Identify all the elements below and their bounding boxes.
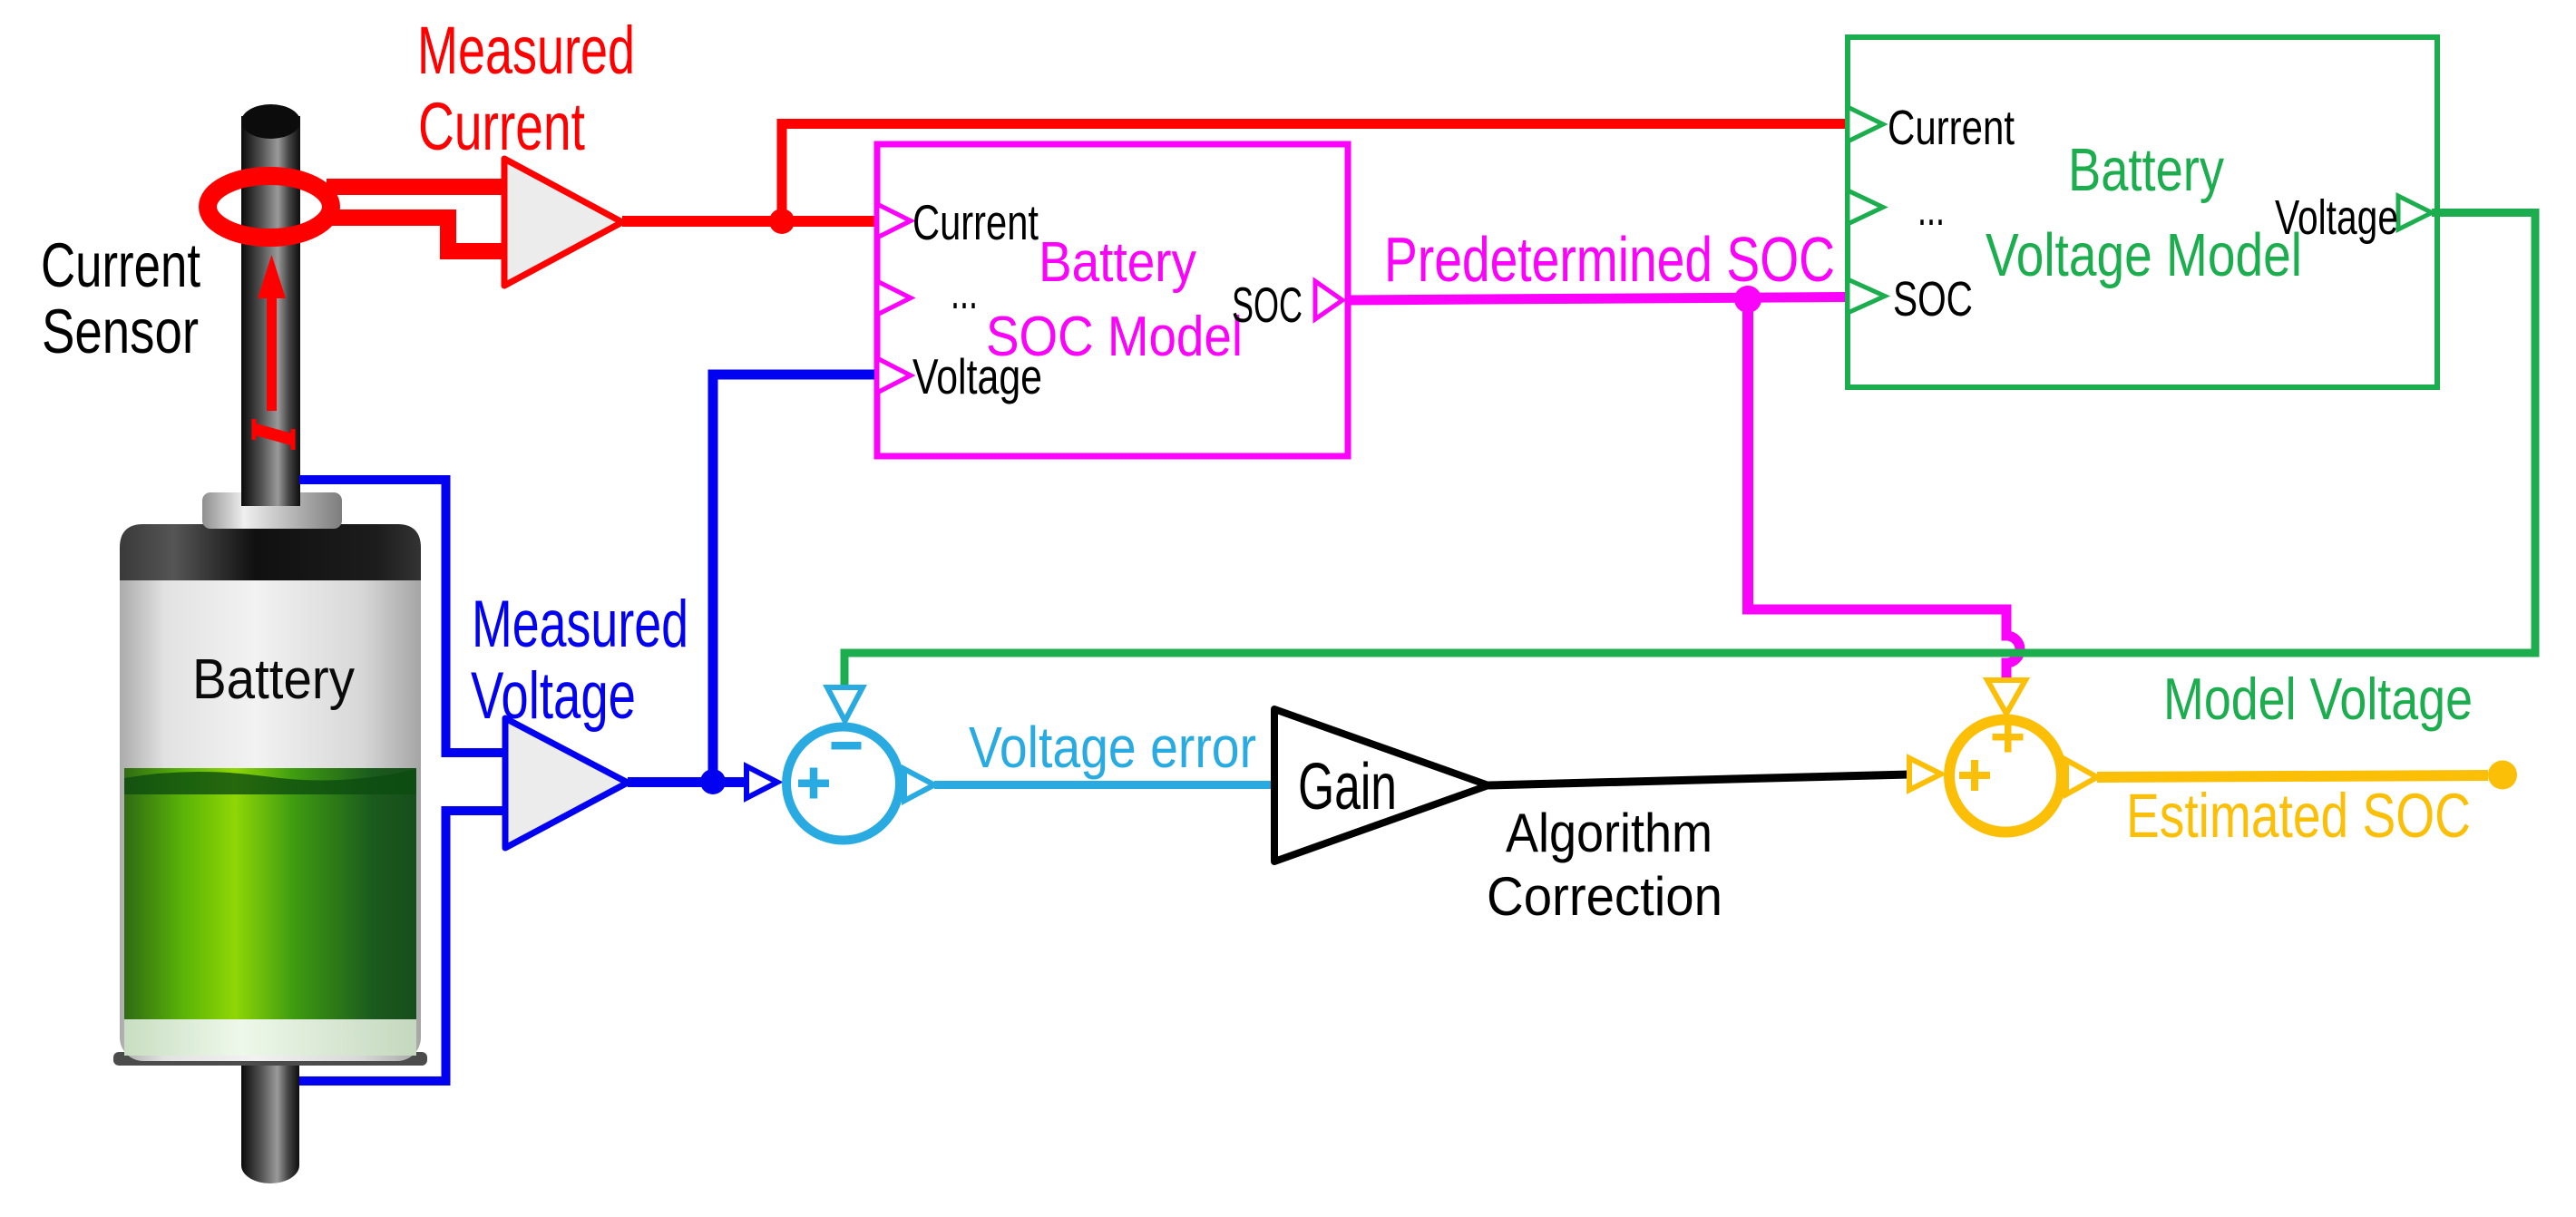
svg-text:Current: Current — [41, 230, 200, 300]
wire node up — [777, 119, 787, 221]
Battery SOC Model block — [877, 144, 1348, 456]
amplifier (current) — [504, 159, 622, 286]
label Measured Current — [417, 13, 635, 164]
svg-text:Battery: Battery — [1039, 231, 1196, 294]
wire ring to amp (top) — [327, 179, 504, 195]
estimator sum left input arrow — [1909, 758, 1941, 790]
SOC model output port SOC — [1315, 281, 1342, 319]
svg-text:Voltage Model: Voltage Model — [1986, 221, 2302, 289]
SOC model title — [986, 231, 1243, 368]
plus sign (left) — [1959, 760, 1990, 791]
estimator sum top input arrow — [1987, 680, 2025, 714]
battery pale bottom band — [124, 1019, 416, 1056]
wire voltage error — [934, 781, 1274, 789]
svg-text:Sensor: Sensor — [42, 297, 199, 366]
svg-text:Current: Current — [912, 194, 1039, 250]
svg-text:...: ... — [951, 263, 978, 319]
wire magenta junction down — [1742, 299, 1753, 609]
voltage model input port Current — [1848, 107, 1883, 141]
svg-text:Estimated SOC: Estimated SOC — [2126, 781, 2471, 851]
SOC model input port Current — [877, 204, 911, 238]
voltage model title — [1986, 136, 2302, 289]
wire gain to estimator sum — [1488, 774, 1909, 785]
voltage model input port middle — [1848, 190, 1883, 224]
svg-text:Battery: Battery — [192, 648, 355, 711]
label Current Sensor — [41, 230, 200, 366]
battery black cap — [120, 524, 421, 580]
voltage model output port Voltage — [2398, 196, 2432, 229]
svg-text:Model Voltage: Model Voltage — [2163, 666, 2473, 732]
wire magenta to estimator sum (with hop over green) — [1742, 609, 2020, 680]
red I label (italic, rotated) — [254, 419, 293, 450]
battery green charge fill — [124, 768, 416, 1019]
wire model voltage output — [844, 213, 2535, 690]
svg-text:Measured: Measured — [472, 588, 688, 661]
battery base plate — [113, 1052, 427, 1066]
wire battery bottom terminal to measured voltage — [299, 811, 505, 1081]
wire measured current to voltage model — [777, 119, 1848, 129]
subtract sum circle — [786, 727, 900, 841]
battery green fill top wave — [124, 769, 416, 794]
battery top rod — [241, 116, 300, 506]
voltage model port labels — [1888, 101, 2398, 326]
red arrow on rod (current direction) — [258, 255, 286, 411]
current sensor ring — [208, 176, 331, 238]
svg-text:Current: Current — [1888, 101, 2015, 155]
wire voltage amp to node — [628, 777, 746, 787]
wire node up to SOC model voltage input — [713, 375, 874, 782]
svg-text:Measured: Measured — [417, 13, 635, 88]
SOC model input port middle — [877, 281, 911, 315]
estimator sum circle — [1949, 720, 2062, 832]
rod top cap ellipse — [241, 104, 300, 139]
subtract sum output arrow — [904, 769, 934, 801]
svg-text:SOC: SOC — [1893, 272, 1973, 326]
svg-text:Gain: Gain — [1298, 751, 1397, 823]
SOC model port labels — [912, 194, 1303, 404]
label Algorithm Correction — [1487, 803, 1722, 927]
voltage model input port SOC — [1848, 279, 1885, 313]
svg-text:SOC: SOC — [1232, 277, 1303, 333]
wire battery top terminal to measured voltage — [299, 480, 505, 753]
svg-text:Voltage error: Voltage error — [969, 715, 1256, 780]
amplifier (voltage) — [505, 718, 628, 848]
wire predetermined SOC — [1345, 297, 1847, 301]
svg-text:Voltage: Voltage — [912, 348, 1042, 404]
node (red junction) — [769, 209, 795, 234]
node (magenta junction) — [1734, 286, 1761, 313]
svg-text:Voltage: Voltage — [2275, 190, 2398, 245]
plus sign (top) — [1993, 722, 2024, 753]
svg-text:Correction: Correction — [1487, 866, 1722, 927]
terminal dot — [2488, 761, 2517, 790]
SOC model input port Voltage — [877, 358, 911, 393]
battery bottom terminal rod — [241, 1056, 299, 1183]
battery top neck terminal — [202, 492, 342, 529]
Battery Voltage Model block — [1848, 37, 2437, 387]
svg-text:Algorithm: Algorithm — [1506, 803, 1712, 863]
minus sign — [832, 742, 862, 750]
plus sign (left) — [798, 768, 829, 799]
svg-text:Battery: Battery — [2068, 136, 2224, 204]
subtract sum top input arrow (from model voltage) — [827, 687, 863, 721]
svg-text:Voltage: Voltage — [471, 659, 636, 733]
label Measured Voltage — [471, 588, 688, 733]
wire amp output to node — [622, 216, 874, 227]
wire estimated SOC — [2097, 775, 2488, 777]
node (blue junction) — [700, 769, 726, 794]
wire ring to amp (bottom, stepped) — [325, 218, 504, 251]
wire node to subtract sum input arrow — [746, 766, 777, 798]
svg-text:Current: Current — [418, 89, 585, 164]
gain block — [1274, 709, 1488, 862]
svg-text:Predetermined SOC: Predetermined SOC — [1384, 224, 1835, 295]
svg-text:...: ... — [1917, 181, 1945, 236]
estimator sum output arrow — [2066, 760, 2097, 794]
battery body (glass) — [120, 524, 421, 1061]
